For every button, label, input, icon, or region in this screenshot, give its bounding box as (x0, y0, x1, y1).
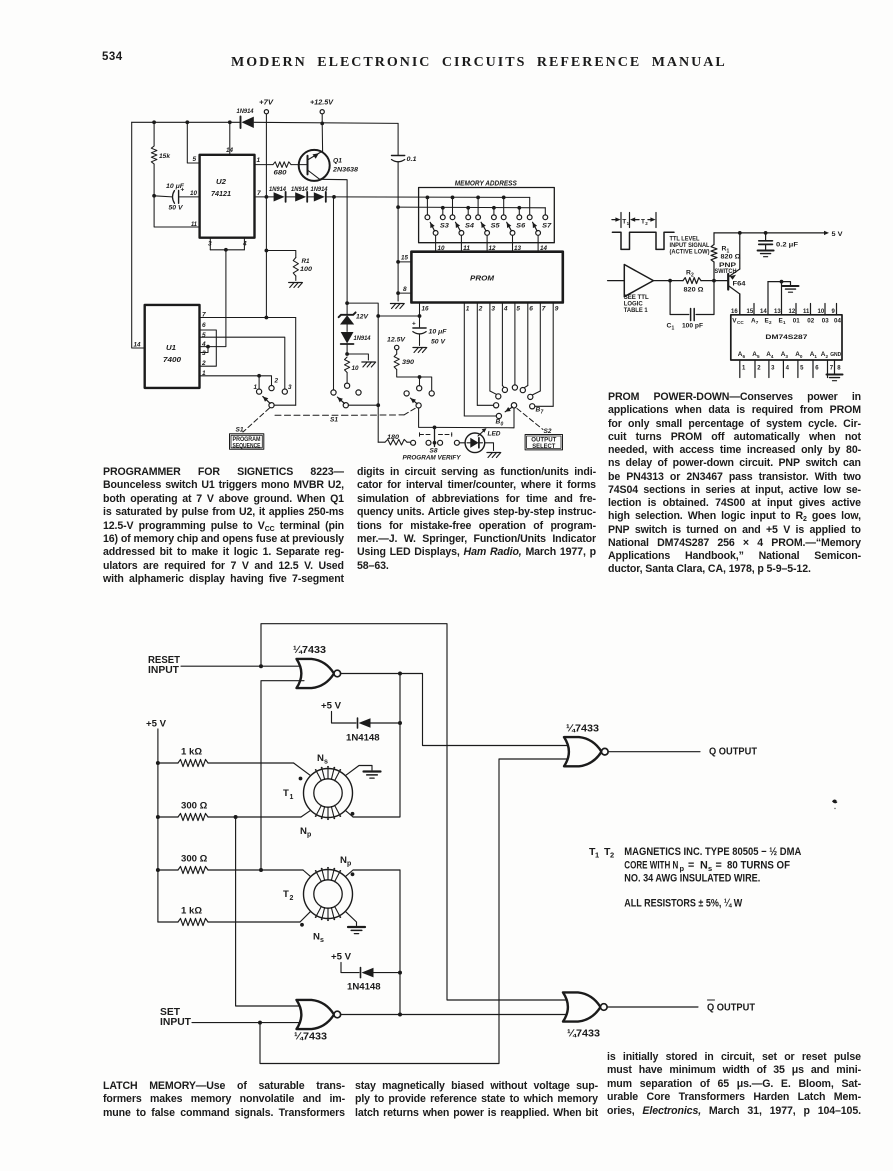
transistor F64 PNP switch (727, 274, 729, 290)
svg-text:N: N (700, 859, 708, 871)
svg-text:TABLE 1: TABLE 1 (624, 307, 648, 314)
caption: LATCH MEMORY col 3 (607, 1051, 861, 1118)
switch S5 (477, 197, 479, 214)
op-amp gate U1a 1/4 7433 reset NOR (297, 659, 335, 688)
svg-text:+: + (412, 321, 416, 328)
pin stubs top (739, 294, 741, 315)
wire T2 bottom-right lead to ground (345, 911, 356, 925)
svg-text:+5 V: +5 V (331, 952, 352, 963)
wire set input (192, 1022, 304, 1024)
svg-text:3: 3 (288, 384, 292, 391)
svg-text:DM74S287: DM74S287 (765, 334, 807, 341)
ground R1 (289, 282, 302, 284)
wire pin 5 U2 (187, 122, 199, 163)
svg-text:¼7433: ¼7433 (567, 1029, 600, 1040)
svg-text:PROGRAM VERIFY: PROGRAM VERIFY (403, 455, 462, 462)
svg-text:1N4148: 1N4148 (346, 733, 380, 744)
svg-text:CORE WITH N: CORE WITH N (624, 859, 678, 871)
svg-text:12: 12 (789, 309, 796, 315)
wire LED to ground (485, 443, 494, 451)
svg-text:5: 5 (800, 366, 804, 372)
resistor R1 100 (266, 251, 295, 258)
caption: PROGRAMMER col 2 (357, 466, 596, 573)
svg-text:2: 2 (826, 354, 829, 359)
wire S1c pole down to verify bus (419, 408, 435, 427)
svg-text:820 Ω: 820 Ω (684, 287, 704, 294)
switch S3 (426, 197, 428, 214)
svg-text:R1: R1 (302, 258, 310, 265)
svg-text:s: s (320, 937, 324, 944)
svg-text:15: 15 (747, 309, 754, 315)
wire T2 top-right lead (345, 870, 400, 877)
svg-text:=: = (688, 859, 694, 871)
svg-text:2: 2 (478, 306, 483, 313)
IC DM74S287 PROM (731, 315, 842, 360)
wire 5V rail (714, 232, 825, 234)
wire U2 pin1 to 680 (255, 164, 274, 166)
label box S2 OUTPUT SELECT (525, 435, 562, 450)
svg-text:3: 3 (491, 306, 495, 313)
wire U1 pin7 to +7V (265, 197, 267, 318)
svg-text:GND: GND (830, 352, 841, 358)
svg-text:MEMORY ADDRESS: MEMORY ADDRESS (455, 179, 517, 188)
caption: PROM POWER-DOWN (608, 391, 861, 577)
wire reset input (181, 665, 304, 667)
capacitor 10uF 50V prog (419, 316, 421, 327)
wire U1 pin5 to S1a contact3 (200, 337, 285, 389)
svg-text:INPUT: INPUT (148, 665, 179, 676)
svg-text:+5 V: +5 V (146, 719, 167, 730)
pin 14 stub U2 (229, 122, 231, 155)
svg-text:820 Ω: 820 Ω (721, 254, 741, 261)
capacitor 0.2 uF bypass (765, 233, 767, 241)
svg-text:14: 14 (134, 342, 141, 349)
svg-text:7: 7 (830, 366, 834, 372)
svg-text:2: 2 (691, 273, 694, 279)
svg-text:S1: S1 (330, 417, 338, 424)
node buffer output junction (668, 279, 672, 283)
svg-text:14: 14 (226, 147, 233, 154)
wire diode row to memory address bus A (334, 196, 530, 199)
svg-text:2: 2 (645, 221, 648, 226)
wire collector to pin16 bus (347, 303, 378, 316)
svg-text:S7: S7 (542, 223, 552, 230)
wire bus B vertical to ground (397, 207, 399, 301)
wire U2 pins 3,4 to U1 pin4/3 (209, 238, 211, 250)
node phasing dot T1 left (299, 777, 303, 781)
svg-text:+5 V: +5 V (321, 701, 342, 712)
resistor R1 820 ohm (713, 262, 715, 281)
wire U1 pin1 (200, 375, 260, 377)
wire memory address bus B (398, 206, 545, 209)
svg-text:2: 2 (769, 320, 772, 325)
wire +5V stub lower (341, 963, 359, 973)
wire 300ohm node down to set gate top input (236, 817, 304, 1006)
svg-text:+: + (181, 187, 185, 194)
transformer T1 (304, 769, 353, 818)
wire verify bus (435, 426, 514, 428)
svg-text:50 V: 50 V (169, 205, 184, 212)
dashed gang linkage S1 (243, 408, 270, 432)
svg-text:7: 7 (542, 306, 546, 313)
svg-text:11: 11 (803, 309, 810, 315)
svg-text:13: 13 (774, 309, 781, 315)
switch S1 section 2 (331, 390, 336, 395)
wire buffer input (608, 280, 625, 282)
wire buffer output (653, 280, 683, 282)
svg-text:5 V: 5 V (832, 231, 844, 238)
svg-text:6: 6 (529, 306, 533, 313)
svg-text:1: 1 (814, 354, 817, 359)
op-amp gate U1b 1/4 7433 set NOR (297, 1000, 335, 1029)
svg-text:03: 03 (822, 317, 829, 324)
switch S1 section 3 contacts (419, 377, 421, 386)
wire cap junction to pin 11 (154, 196, 200, 227)
svg-text:N: N (300, 826, 307, 837)
svg-text:F64: F64 (733, 281, 747, 288)
svg-text:1N914: 1N914 (269, 186, 286, 193)
svg-text:10: 10 (818, 309, 825, 315)
svg-text:2N3638: 2N3638 (332, 167, 358, 174)
svg-text:LED: LED (488, 431, 501, 438)
svg-text:¼7433: ¼7433 (566, 724, 599, 735)
LED arrow and label (478, 430, 485, 436)
node R2/R1/base junction (712, 279, 716, 283)
wire U2 pin7 (255, 196, 274, 198)
svg-text:+7V: +7V (259, 100, 274, 107)
svg-text:N: N (340, 855, 347, 866)
svg-text:10 μF: 10 μF (429, 329, 448, 336)
svg-text:2: 2 (290, 895, 294, 902)
caption: LATCH MEMORY col 1 (103, 1080, 345, 1120)
waveform TTL input signal (612, 232, 674, 249)
svg-text:1: 1 (290, 794, 294, 801)
resistor 15k (153, 122, 155, 146)
ground enable (783, 285, 799, 287)
svg-text:12.5V: 12.5V (387, 337, 406, 344)
svg-text:1 kΩ: 1 kΩ (181, 906, 202, 917)
svg-text:6: 6 (743, 354, 746, 359)
transformer T2 (304, 870, 353, 919)
svg-text:Q1: Q1 (333, 158, 342, 165)
wire +5V stub upper (332, 712, 357, 724)
svg-text:3: 3 (785, 354, 788, 359)
svg-text:4: 4 (503, 306, 508, 313)
wire vertical 378 branch (377, 316, 379, 442)
wire T2 bottom-left lead (300, 911, 311, 922)
wire E2/E1 enable pullup (767, 282, 769, 315)
svg-text:10: 10 (190, 190, 197, 197)
ground LED (487, 452, 500, 454)
svg-text:INPUT: INPUT (160, 1017, 191, 1028)
ground PROM left (391, 303, 404, 305)
wire vertical from reset output to T1 secondary (353, 674, 400, 818)
svg-text:5: 5 (516, 306, 520, 313)
svg-text:1N4148: 1N4148 (347, 982, 381, 993)
wire reset gate lower input feedback (261, 681, 304, 870)
wire zener branch vertical (333, 197, 335, 390)
switch S2 pole (511, 403, 516, 408)
ground T1 (364, 770, 381, 772)
switch S2 rotary contacts (496, 413, 501, 418)
svg-text:S3: S3 (440, 223, 449, 230)
wire S1b pole to 378 vertical (348, 404, 378, 406)
resistor 680 (273, 162, 291, 168)
resistor 10 (345, 357, 350, 373)
wire lead to T2 top-left (303, 870, 311, 877)
resistor 180 (378, 441, 385, 443)
wire S1a pole to U1 pin7 vertical (274, 404, 296, 406)
svg-text:N: N (317, 753, 324, 764)
capacitor 0.1 (397, 123, 399, 155)
svg-text:04: 04 (834, 317, 841, 324)
pin 16 stub PROM (419, 303, 421, 317)
wire U1 pin6 to pin2 (200, 330, 217, 366)
wire PROM pin8 (398, 292, 411, 294)
svg-text:2: 2 (274, 378, 279, 385)
svg-text:8: 8 (403, 286, 407, 293)
svg-text:02: 02 (807, 317, 814, 324)
svg-text:s: s (324, 759, 328, 766)
printing artifact blob (832, 800, 837, 804)
svg-text:Q OUTPUT: Q OUTPUT (709, 747, 757, 758)
svg-text:SWITCH: SWITCH (715, 268, 737, 275)
wire ground branch (347, 354, 368, 360)
svg-text:SEQUENCE: SEQUENCE (233, 442, 261, 449)
svg-text:Q OUTPUT: Q OUTPUT (707, 1003, 755, 1014)
wire reset gate output to Q gate top input (341, 674, 571, 746)
svg-text:300 Ω: 300 Ω (181, 854, 208, 865)
svg-text:0.1: 0.1 (407, 156, 417, 163)
svg-text:6: 6 (815, 366, 819, 372)
op-amp gate U1d 1/4 7433 Qbar output NOR (563, 992, 601, 1021)
capacitor C1 100 pF (670, 281, 689, 315)
wire top rail (132, 121, 240, 123)
node reset-input/feedback junction (259, 664, 263, 668)
wire PROM pin15 (398, 261, 411, 263)
svg-text:p: p (307, 832, 311, 839)
node collector branch (345, 301, 349, 305)
node +7V/pin7 (265, 195, 269, 199)
svg-text:NO. 34 AWG INSULATED WIRE.: NO. 34 AWG INSULATED WIRE. (624, 873, 760, 885)
wire Qbar output (608, 1006, 699, 1008)
svg-text:T: T (283, 788, 289, 799)
wire pin16 horizontal (378, 315, 419, 317)
svg-text:0: 0 (501, 422, 504, 428)
svg-text:ALL RESISTORS ± 5%, ¼ W: ALL RESISTORS ± 5%, ¼ W (624, 898, 743, 910)
svg-text:4: 4 (786, 366, 790, 372)
svg-text:U2: U2 (216, 177, 226, 186)
svg-text:300 Ω: 300 Ω (181, 801, 208, 812)
svg-text:8: 8 (837, 366, 841, 372)
node zener/ground branch (345, 352, 349, 356)
svg-text:9: 9 (555, 306, 559, 313)
timing marks T1 T2 (620, 213, 622, 228)
svg-text:01: 01 (793, 317, 800, 324)
svg-text:7: 7 (541, 410, 544, 416)
dashed linkage S2 (517, 409, 543, 430)
svg-text:=: = (716, 859, 722, 871)
wire lead to T1 top-left (294, 763, 311, 776)
caption: PROGRAMMER FOR SIGNETICS col 1 (103, 466, 344, 587)
svg-text:p: p (347, 861, 351, 868)
wire left outer vertical (132, 122, 145, 348)
op-amp buffer TTL driver triangle (624, 265, 653, 297)
wire T1 top-right lead to ground (345, 766, 372, 776)
transistor Q1 2N3638 (299, 150, 330, 181)
svg-text:12V: 12V (356, 314, 369, 321)
svg-text:1: 1 (466, 306, 470, 313)
svg-text:U1: U1 (166, 343, 176, 352)
IC PROM (411, 252, 562, 303)
svg-text:¼7433: ¼7433 (294, 1032, 327, 1043)
svg-text:15: 15 (401, 255, 408, 262)
svg-text:5: 5 (193, 156, 197, 163)
box memory address (419, 188, 555, 243)
svg-text:SELECT: SELECT (532, 443, 555, 450)
svg-text:1: 1 (742, 366, 746, 372)
svg-text:16: 16 (731, 309, 738, 315)
node diode row junction (332, 195, 336, 199)
svg-text:3: 3 (202, 350, 206, 357)
svg-text:80 TURNS OF: 80 TURNS OF (727, 859, 790, 871)
svg-text:1: 1 (672, 326, 675, 332)
svg-text:7: 7 (257, 190, 261, 197)
node reset output junction (398, 672, 402, 676)
pin stubs bottom (739, 360, 741, 378)
switch S4 (452, 197, 454, 214)
svg-text:+12.5V: +12.5V (310, 100, 334, 107)
svg-text:15k: 15k (159, 153, 171, 160)
svg-text:5: 5 (202, 332, 206, 339)
svg-text:390: 390 (402, 359, 414, 366)
ground bypass cap (758, 250, 774, 252)
node phasing dot T2 right (351, 872, 355, 876)
diode 1N4148 lower (360, 968, 362, 978)
svg-text:S2: S2 (544, 428, 552, 435)
wire vertical T2 to set-gate output node (399, 870, 401, 1015)
caption: LATCH MEMORY col 2 (355, 1080, 598, 1120)
page number (102, 51, 123, 63)
svg-text:1: 1 (254, 384, 258, 391)
svg-text:1: 1 (595, 851, 599, 860)
svg-text:6: 6 (202, 322, 206, 329)
svg-text:N: N (313, 932, 320, 943)
svg-text:74121: 74121 (211, 189, 231, 198)
svg-text:14: 14 (760, 309, 767, 315)
svg-text:1N914: 1N914 (354, 335, 371, 342)
svg-text:1N914: 1N914 (237, 108, 254, 115)
svg-text:CC: CC (737, 320, 744, 325)
svg-text:¼7433: ¼7433 (293, 645, 326, 656)
svg-text:S5: S5 (491, 223, 500, 230)
svg-text:16: 16 (422, 306, 429, 313)
wire Q output (609, 751, 701, 753)
svg-text:1: 1 (257, 157, 261, 164)
switch S8 pushbutton PROGRAM VERIFY (411, 440, 416, 445)
wire reset input to Qbar-gate top feedback (261, 624, 570, 1000)
svg-text:2: 2 (610, 851, 614, 860)
svg-text:S1: S1 (236, 427, 244, 434)
wire set output to Qbar gate bottom input (341, 1014, 570, 1016)
svg-text:S4: S4 (465, 223, 474, 230)
running head (231, 55, 727, 71)
switch S7 (529, 197, 531, 214)
diode 1N4148 upper (357, 718, 359, 728)
svg-text:4: 4 (771, 354, 774, 359)
svg-text:50 V: 50 V (431, 339, 446, 346)
svg-text:MAGNETICS INC. TYPE 80505 − ½: MAGNETICS INC. TYPE 80505 − ½ DMA (624, 846, 801, 858)
wire T1 bottom-right lead (345, 810, 353, 817)
wire lead to T1 bottom-left (301, 810, 311, 817)
switch S6 (503, 197, 505, 214)
svg-text:S6: S6 (516, 223, 525, 230)
svg-text:1 kΩ: 1 kΩ (181, 747, 202, 758)
svg-text:2: 2 (757, 366, 761, 372)
svg-text:T: T (283, 889, 289, 900)
svg-text:7400: 7400 (163, 355, 181, 364)
svg-text:100: 100 (300, 266, 312, 273)
node phasing dot T1 right (351, 812, 355, 816)
svg-text:100 pF: 100 pF (682, 323, 703, 330)
svg-text:11: 11 (191, 221, 197, 228)
IC U2 74121 (200, 155, 255, 238)
svg-text:5: 5 (757, 354, 760, 359)
svg-text:10: 10 (352, 365, 359, 372)
wire set input feedback to Q gate bottom input (260, 759, 571, 1064)
ground T2 (348, 926, 365, 928)
node phasing dot T2 left (300, 923, 304, 927)
svg-text:3: 3 (771, 366, 775, 372)
wire +5V rail vertical (157, 729, 159, 922)
node bus B source (396, 205, 400, 209)
LED indicator (460, 442, 466, 444)
svg-text:PROM: PROM (470, 274, 495, 283)
svg-text:0.2 μF: 0.2 μF (776, 242, 798, 249)
ground pin 8 (827, 374, 843, 376)
IC U1 7400 (145, 305, 200, 388)
ground zener (362, 361, 375, 363)
svg-text:1N914: 1N914 (291, 186, 308, 193)
wire +7V vertical (265, 114, 267, 196)
svg-text:1: 1 (783, 320, 786, 325)
resistor 390 (396, 350, 398, 354)
svg-text:0: 0 (800, 354, 803, 359)
op-amp gate U1c 1/4 7433 Q output NOR (564, 737, 602, 766)
node cap junction (152, 194, 156, 198)
svg-text:S8: S8 (430, 448, 438, 455)
svg-text:7: 7 (756, 320, 759, 325)
switch S1 section 1 (258, 376, 260, 389)
svg-text:(ACTIVE LOW): (ACTIVE LOW) (670, 249, 710, 256)
ground prog cap (413, 347, 426, 349)
svg-text:680: 680 (274, 170, 287, 177)
